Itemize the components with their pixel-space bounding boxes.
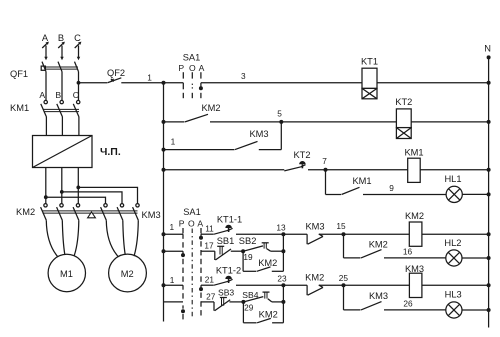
phase B supply arrow — [58, 42, 65, 61]
wire feeder B to KM3 — [62, 192, 122, 204]
node on N rail rung1 — [487, 81, 491, 85]
svg-text:QF2: QF2 — [107, 68, 125, 78]
svg-text:1: 1 — [169, 222, 174, 232]
node 21 label — [205, 274, 215, 284]
relay KT1 coil — [362, 68, 377, 99]
contact KT2 timed NO — [284, 161, 305, 171]
wire KM1 to converter A — [45, 117, 47, 136]
wire KM2 NC to node 25 — [319, 284, 344, 286]
wire SA1 to KT1-2 — [201, 284, 214, 286]
breaker QF1 — [41, 62, 78, 72]
SA1 lower P dashed line — [181, 228, 185, 319]
node 19 — [241, 249, 245, 253]
node 19 label — [243, 252, 253, 262]
svg-text:QF1: QF1 — [10, 69, 28, 79]
svg-text:KM1: KM1 — [404, 147, 423, 157]
node 7 — [324, 168, 328, 172]
node on N rail rung4 — [487, 168, 491, 172]
svg-text:М2: М2 — [121, 269, 134, 279]
wire KT2 to N rail — [411, 121, 488, 123]
lamp HL1 — [446, 186, 462, 202]
frequency converter label — [100, 146, 121, 158]
wire KT2 contact to node 7 — [308, 169, 326, 171]
svg-text:23: 23 — [277, 274, 287, 284]
lamp HL3 label — [445, 290, 462, 300]
node on N rail HL2 — [487, 256, 491, 260]
wire node19 down to hold contact — [242, 251, 244, 271]
svg-text:KM2: KM2 — [259, 309, 278, 319]
svg-text:29: 29 — [244, 303, 254, 313]
wire rail to KM3 contact — [164, 149, 235, 151]
wire KM3 coil to N rail — [422, 284, 489, 286]
wire to KM1 aux contact — [326, 194, 342, 196]
svg-text:11: 11 — [205, 223, 214, 233]
contact KM2 aux label — [369, 239, 388, 249]
contact KT1-1 timed NO — [214, 225, 233, 234]
svg-text:HL2: HL2 — [444, 238, 461, 248]
node 5 — [279, 120, 283, 124]
relay KT1 label — [361, 57, 378, 67]
lamp HL3 — [446, 302, 462, 318]
wire rail to KT2 contact — [164, 169, 285, 171]
wire node 26 to HL3 — [384, 309, 446, 311]
node 25 — [342, 283, 346, 287]
wire HL3 to N rail — [462, 309, 489, 311]
relay KT2 coil — [396, 109, 411, 139]
wire converter output B — [61, 168, 63, 204]
svg-text:KT1: KT1 — [361, 57, 378, 67]
svg-text:KM3: KM3 — [405, 264, 424, 274]
node 15 — [342, 232, 346, 236]
node 27 label — [206, 291, 216, 301]
svg-text:KM2: KM2 — [16, 207, 35, 217]
phase A supply arrow — [42, 42, 49, 61]
SA1 lower A dashed line — [199, 228, 203, 316]
right rail N — [488, 57, 490, 327]
contactor KM2 label — [16, 207, 35, 217]
wire node23 to rung8 junction — [282, 285, 284, 302]
svg-text:KM2: KM2 — [305, 273, 324, 283]
wire converter output C — [77, 168, 79, 204]
node 1 label rung7 — [170, 275, 175, 285]
contactor coil KM3 — [409, 273, 422, 297]
node 29 — [241, 300, 245, 304]
wire KM2 to node 5 — [210, 121, 281, 123]
svg-text:C: C — [73, 90, 79, 100]
svg-text:KT1-2: KT1-2 — [216, 266, 241, 276]
frequency converter box — [33, 136, 93, 168]
node 11 label — [205, 223, 214, 233]
svg-text:KM2: KM2 — [405, 211, 424, 221]
contactor KM1 label — [10, 103, 29, 113]
svg-text:9: 9 — [389, 183, 394, 193]
svg-text:B: B — [55, 90, 61, 100]
contact KM2 hold NO — [243, 251, 283, 271]
svg-text:1: 1 — [171, 137, 176, 147]
svg-text:P: P — [179, 218, 185, 228]
wire rail to SA1 rung5 — [164, 233, 184, 235]
wire KT1 to N rail — [377, 82, 489, 84]
lamp HL1 label — [444, 174, 461, 184]
wire node25 down to HL3 branch — [343, 285, 345, 310]
node 16 label — [403, 247, 413, 257]
svg-text:A: A — [42, 33, 49, 43]
wire node15 to KM2 coil — [344, 233, 410, 235]
contactor coil KM1 — [408, 158, 421, 182]
wire node5 to KT2 coil — [281, 121, 396, 123]
rung3 node on left rail — [162, 148, 166, 152]
junction rung6 — [281, 249, 285, 253]
breaker QF1 label — [10, 69, 28, 79]
svg-text:19: 19 — [243, 252, 253, 262]
wire SA1 to KT1-1 — [201, 233, 214, 235]
svg-text:SB1: SB1 — [217, 236, 235, 246]
wire node15 down to HL2 branch — [343, 234, 345, 258]
wire KM3 to vertical — [259, 149, 282, 151]
phase A label — [42, 33, 49, 43]
switch SA1 lower label — [183, 207, 201, 217]
motor M1 leads — [46, 220, 79, 257]
node 25 label — [339, 273, 349, 283]
wire node13 to KM3 NC — [283, 233, 307, 235]
node on N rail rung2 — [487, 120, 491, 124]
button SB4 — [244, 292, 272, 302]
contact KM3 label — [249, 129, 268, 139]
switch SA1 upper label — [183, 53, 201, 63]
node on N rail HL3 — [487, 308, 491, 312]
svg-text:7: 7 — [322, 156, 327, 166]
wire rail to KM2 contact — [164, 121, 185, 123]
wire node7 to KM1 coil — [326, 169, 408, 171]
svg-text:SA1: SA1 — [183, 207, 201, 217]
node 1 — [162, 81, 166, 85]
wire node13 to rung6 junction — [282, 234, 284, 251]
label B above KM1 — [55, 90, 61, 100]
wire QF1 to KM1 phase A — [45, 72, 47, 101]
wire rail to SA1 P rung8 — [164, 301, 184, 303]
svg-text:KM2: KM2 — [369, 239, 388, 249]
svg-text:1: 1 — [170, 275, 175, 285]
button SB3 label — [218, 288, 234, 298]
svg-text:B: B — [58, 33, 64, 43]
wire feeder A to KM3 — [46, 197, 106, 203]
wire SA1 A to SB1 — [201, 250, 215, 252]
SA1 upper contact — [183, 72, 203, 98]
svg-text:KT1-1: KT1-1 — [217, 215, 242, 225]
node 29 label — [244, 303, 254, 313]
svg-text:KT2: KT2 — [395, 97, 412, 107]
svg-text:O: O — [188, 218, 195, 228]
wire KM2 coil to N rail — [422, 233, 489, 235]
wire QF2 to node 1 — [121, 82, 163, 84]
node 13 label — [276, 223, 286, 233]
relay KT2 label — [395, 97, 412, 107]
rung7 node on left rail — [162, 283, 166, 287]
contactor coil KM1 label — [404, 147, 423, 157]
motor M1 — [48, 254, 85, 291]
svg-text:P: P — [178, 63, 184, 73]
svg-text:5: 5 — [277, 109, 282, 119]
contact KM1 NO — [342, 187, 360, 194]
svg-text:A: A — [199, 63, 205, 73]
wire KM1 to converter C — [78, 117, 80, 136]
interlock triangle — [88, 212, 96, 218]
contactor KM3 label — [142, 210, 161, 220]
node 1 label rung3 — [171, 137, 176, 147]
wire KM1 coil to N rail — [420, 169, 488, 171]
node 3 label — [241, 71, 246, 81]
wire SA1 A to SB3 — [201, 301, 214, 303]
contact KM2 NO aux — [361, 250, 382, 258]
rung2 node on left rail — [162, 120, 166, 124]
button SB2 label — [239, 236, 257, 246]
contact KM1 label — [352, 176, 371, 186]
svg-text:16: 16 — [403, 247, 413, 257]
label A above KM1 — [39, 90, 45, 100]
wire KM3 NC to node 15 — [319, 233, 344, 235]
motor M2 — [109, 254, 147, 292]
node 17 label — [204, 241, 214, 251]
svg-text:21: 21 — [205, 274, 215, 284]
svg-text:O: O — [189, 63, 196, 73]
contact KT2 label — [293, 150, 310, 160]
wire SB4 to junction — [272, 301, 284, 303]
svg-text:KM1: KM1 — [352, 176, 371, 186]
junction rung8 — [281, 300, 285, 304]
svg-text:1: 1 — [147, 73, 152, 83]
svg-text:26: 26 — [403, 299, 413, 309]
node output C — [76, 186, 80, 190]
wire KM1 to converter B — [61, 117, 63, 136]
svg-text:3: 3 — [241, 71, 246, 81]
wire KT1-2 to node 23 — [236, 284, 283, 286]
node 23 label — [277, 274, 287, 284]
contact KM3 NC label — [305, 222, 324, 232]
contactor coil KM2 label — [405, 211, 424, 221]
node 1 label — [147, 73, 152, 83]
N label — [484, 44, 491, 54]
rung4 node on left rail — [162, 168, 166, 172]
SA1 lower O dash-dot line — [191, 229, 193, 317]
phase C supply arrow — [75, 42, 82, 61]
svg-text:SB3: SB3 — [218, 288, 234, 298]
svg-text:C: C — [74, 33, 81, 43]
lamp HL2 — [446, 250, 462, 266]
wire SB1 to node 19 — [231, 250, 243, 252]
svg-text:13: 13 — [276, 223, 286, 233]
svg-text:HL1: HL1 — [444, 174, 461, 184]
wire HL1 to N rail — [462, 193, 488, 195]
node on N rail rung7 — [487, 283, 491, 287]
svg-text:KT2: KT2 — [293, 150, 310, 160]
contact KM3 NO aux — [361, 302, 382, 310]
svg-text:N: N — [484, 44, 491, 54]
contact KM2 NC label — [305, 273, 324, 283]
contact KM2 hold 2 NO — [243, 302, 283, 323]
svg-text:15: 15 — [336, 221, 346, 231]
SA1 lower position letters — [179, 218, 204, 228]
wire KT1-1 to node 13 — [236, 233, 283, 235]
node 26 label — [403, 299, 413, 309]
button SB2 — [243, 243, 270, 251]
svg-text:KM3: KM3 — [305, 222, 324, 232]
node output B — [60, 190, 64, 194]
contactor KM1 main contacts — [41, 100, 80, 117]
wire to KM3 aux contact — [344, 309, 361, 311]
node on N rail HL1 — [487, 192, 491, 196]
contactor coil KM2 — [409, 222, 422, 246]
mechanical interlock crossbar — [43, 211, 138, 213]
wire HL2 to N rail — [462, 257, 489, 259]
svg-text:KM3: KM3 — [142, 210, 161, 220]
wire converter output A — [45, 168, 47, 204]
contact KM3 NC — [307, 234, 323, 244]
svg-text:KM3: KM3 — [369, 291, 388, 301]
node 5 label — [277, 109, 282, 119]
contactor KM3 main contacts — [101, 204, 140, 221]
svg-text:A: A — [197, 218, 203, 228]
node on N rail rung5 — [487, 232, 491, 236]
contact KT1-1 label — [217, 215, 242, 225]
wire node25 to KM3 coil — [344, 284, 410, 286]
contact KT1-2 label — [216, 266, 241, 276]
contact KM2 NC — [307, 285, 323, 295]
button SB4 label — [242, 290, 258, 300]
svg-text:KM1: KM1 — [10, 103, 29, 113]
button SB3 — [214, 298, 230, 311]
node 23 — [281, 283, 285, 287]
left rail — [163, 83, 165, 322]
wire node 9 to HL1 — [363, 194, 446, 196]
label C above KM1 — [73, 90, 79, 100]
motor M2 leads — [106, 220, 138, 256]
wire QF1 to KM1 phase C — [78, 72, 80, 101]
node output A — [44, 195, 48, 199]
wire tap C to QF2 — [79, 82, 108, 84]
phase C label — [74, 33, 81, 43]
wire to KM2 aux contact — [344, 257, 361, 259]
wire node 16 to HL2 — [384, 257, 446, 259]
svg-text:27: 27 — [206, 291, 216, 301]
svg-text:KM2: KM2 — [258, 258, 277, 268]
N rail top node — [487, 55, 491, 59]
wire node1 to SA1 — [164, 82, 184, 84]
node 7 label — [322, 156, 327, 166]
lamp HL2 label — [444, 238, 461, 248]
node 13 — [281, 232, 285, 236]
svg-text:A: A — [39, 90, 45, 100]
button SB1 label — [217, 236, 235, 246]
button SB1 — [215, 246, 231, 260]
wire SB2 to junction — [271, 250, 284, 252]
node tap on phase C — [77, 81, 81, 85]
svg-text:KM3: KM3 — [249, 129, 268, 139]
rung5 node on left rail — [162, 232, 166, 236]
contact KM2 hold 2 label — [259, 309, 278, 319]
wire feeder C to KM3 — [78, 187, 137, 203]
svg-text:HL3: HL3 — [445, 290, 462, 300]
contact KM2 NO — [185, 114, 208, 122]
svg-text:SB2: SB2 — [239, 236, 257, 246]
svg-text:17: 17 — [204, 241, 214, 251]
contact KM3 NO — [235, 141, 258, 149]
wire vertical to node5 — [280, 122, 282, 150]
node 9 label — [389, 183, 394, 193]
node 15 label — [336, 221, 346, 231]
breaker QF2 — [108, 78, 122, 83]
node 1 label rung5 — [169, 222, 174, 232]
wire rail to SA1 rung7 — [164, 284, 184, 286]
rung6 node on left rail — [162, 249, 166, 253]
contact KM3 aux label — [369, 291, 388, 301]
SA1 upper position letters — [178, 63, 204, 73]
breaker QF2 label — [107, 68, 125, 78]
contactor KM2 main contacts — [41, 204, 80, 221]
wire node23 to KM2 NC — [283, 284, 307, 286]
contactor coil KM3 label — [405, 264, 424, 274]
wire node29 down to hold contact 2 — [242, 302, 244, 323]
svg-text:25: 25 — [339, 273, 349, 283]
phase B label — [58, 33, 64, 43]
wire SA1 to KT1 node 3 — [201, 82, 362, 84]
wire rail to SA1 P rung6 — [164, 250, 184, 252]
contact KM2 hold label — [258, 258, 277, 268]
svg-text:SA1: SA1 — [183, 53, 201, 63]
wire SB3 to node 29 — [229, 301, 243, 303]
svg-text:Ч.П.: Ч.П. — [100, 146, 121, 158]
wire node7 down to HL1 branch — [325, 170, 327, 195]
wire QF1 to KM1 phase B — [61, 72, 63, 101]
contact KT1-2 timed NO — [214, 276, 233, 286]
svg-text:М1: М1 — [60, 269, 73, 279]
svg-text:KM2: KM2 — [201, 103, 220, 113]
contact KM2 label — [201, 103, 220, 113]
